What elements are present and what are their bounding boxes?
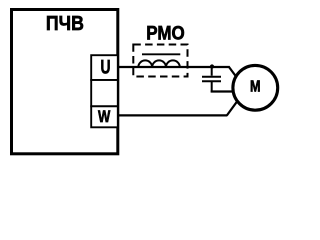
motor M circle	[233, 65, 278, 110]
capacitor C1 bottom plate	[202, 80, 221, 82]
svg-text:W: W	[98, 107, 111, 126]
svg-text:РМО: РМО	[146, 22, 185, 44]
wire U to motor (top rail)	[119, 66, 230, 68]
wire W to motor (bottom rail)	[119, 114, 227, 116]
inductor L1 coil	[138, 60, 180, 67]
terminal box W	[91, 106, 118, 127]
frequency converter box ПЧВ (U1)	[12, 10, 118, 154]
svg-text:ПЧВ: ПЧВ	[46, 13, 84, 35]
capacitor C1 lead up	[211, 67, 213, 76]
capacitor C1 lead down	[211, 81, 213, 92]
wire capacitor to motor	[211, 90, 237, 92]
inductor L1 core line	[142, 53, 180, 55]
wire diagonal top into motor	[229, 67, 241, 83]
capacitor C1 top plate	[202, 76, 221, 78]
motor reactor РМО dashed enclosure	[133, 45, 187, 77]
svg-text:М: М	[250, 79, 261, 96]
terminal box U	[91, 55, 118, 80]
svg-text:U: U	[101, 57, 111, 79]
terminal box V (unlabelled)	[91, 80, 118, 106]
wire diagonal bottom into motor	[227, 99, 239, 116]
node junction dot on top rail	[210, 64, 214, 68]
